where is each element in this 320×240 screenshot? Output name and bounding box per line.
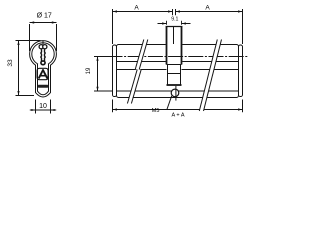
- svg-text:9.1: 9.1: [171, 16, 178, 22]
- svg-text:A: A: [134, 4, 139, 11]
- svg-text:10: 10: [39, 103, 47, 110]
- svg-text:33: 33: [7, 59, 14, 67]
- svg-text:A: A: [205, 4, 210, 11]
- svg-text:M5: M5: [152, 108, 160, 114]
- svg-text:A + A: A + A: [172, 113, 185, 119]
- svg-text:Ø 17: Ø 17: [37, 13, 52, 20]
- svg-text:19: 19: [86, 67, 92, 74]
